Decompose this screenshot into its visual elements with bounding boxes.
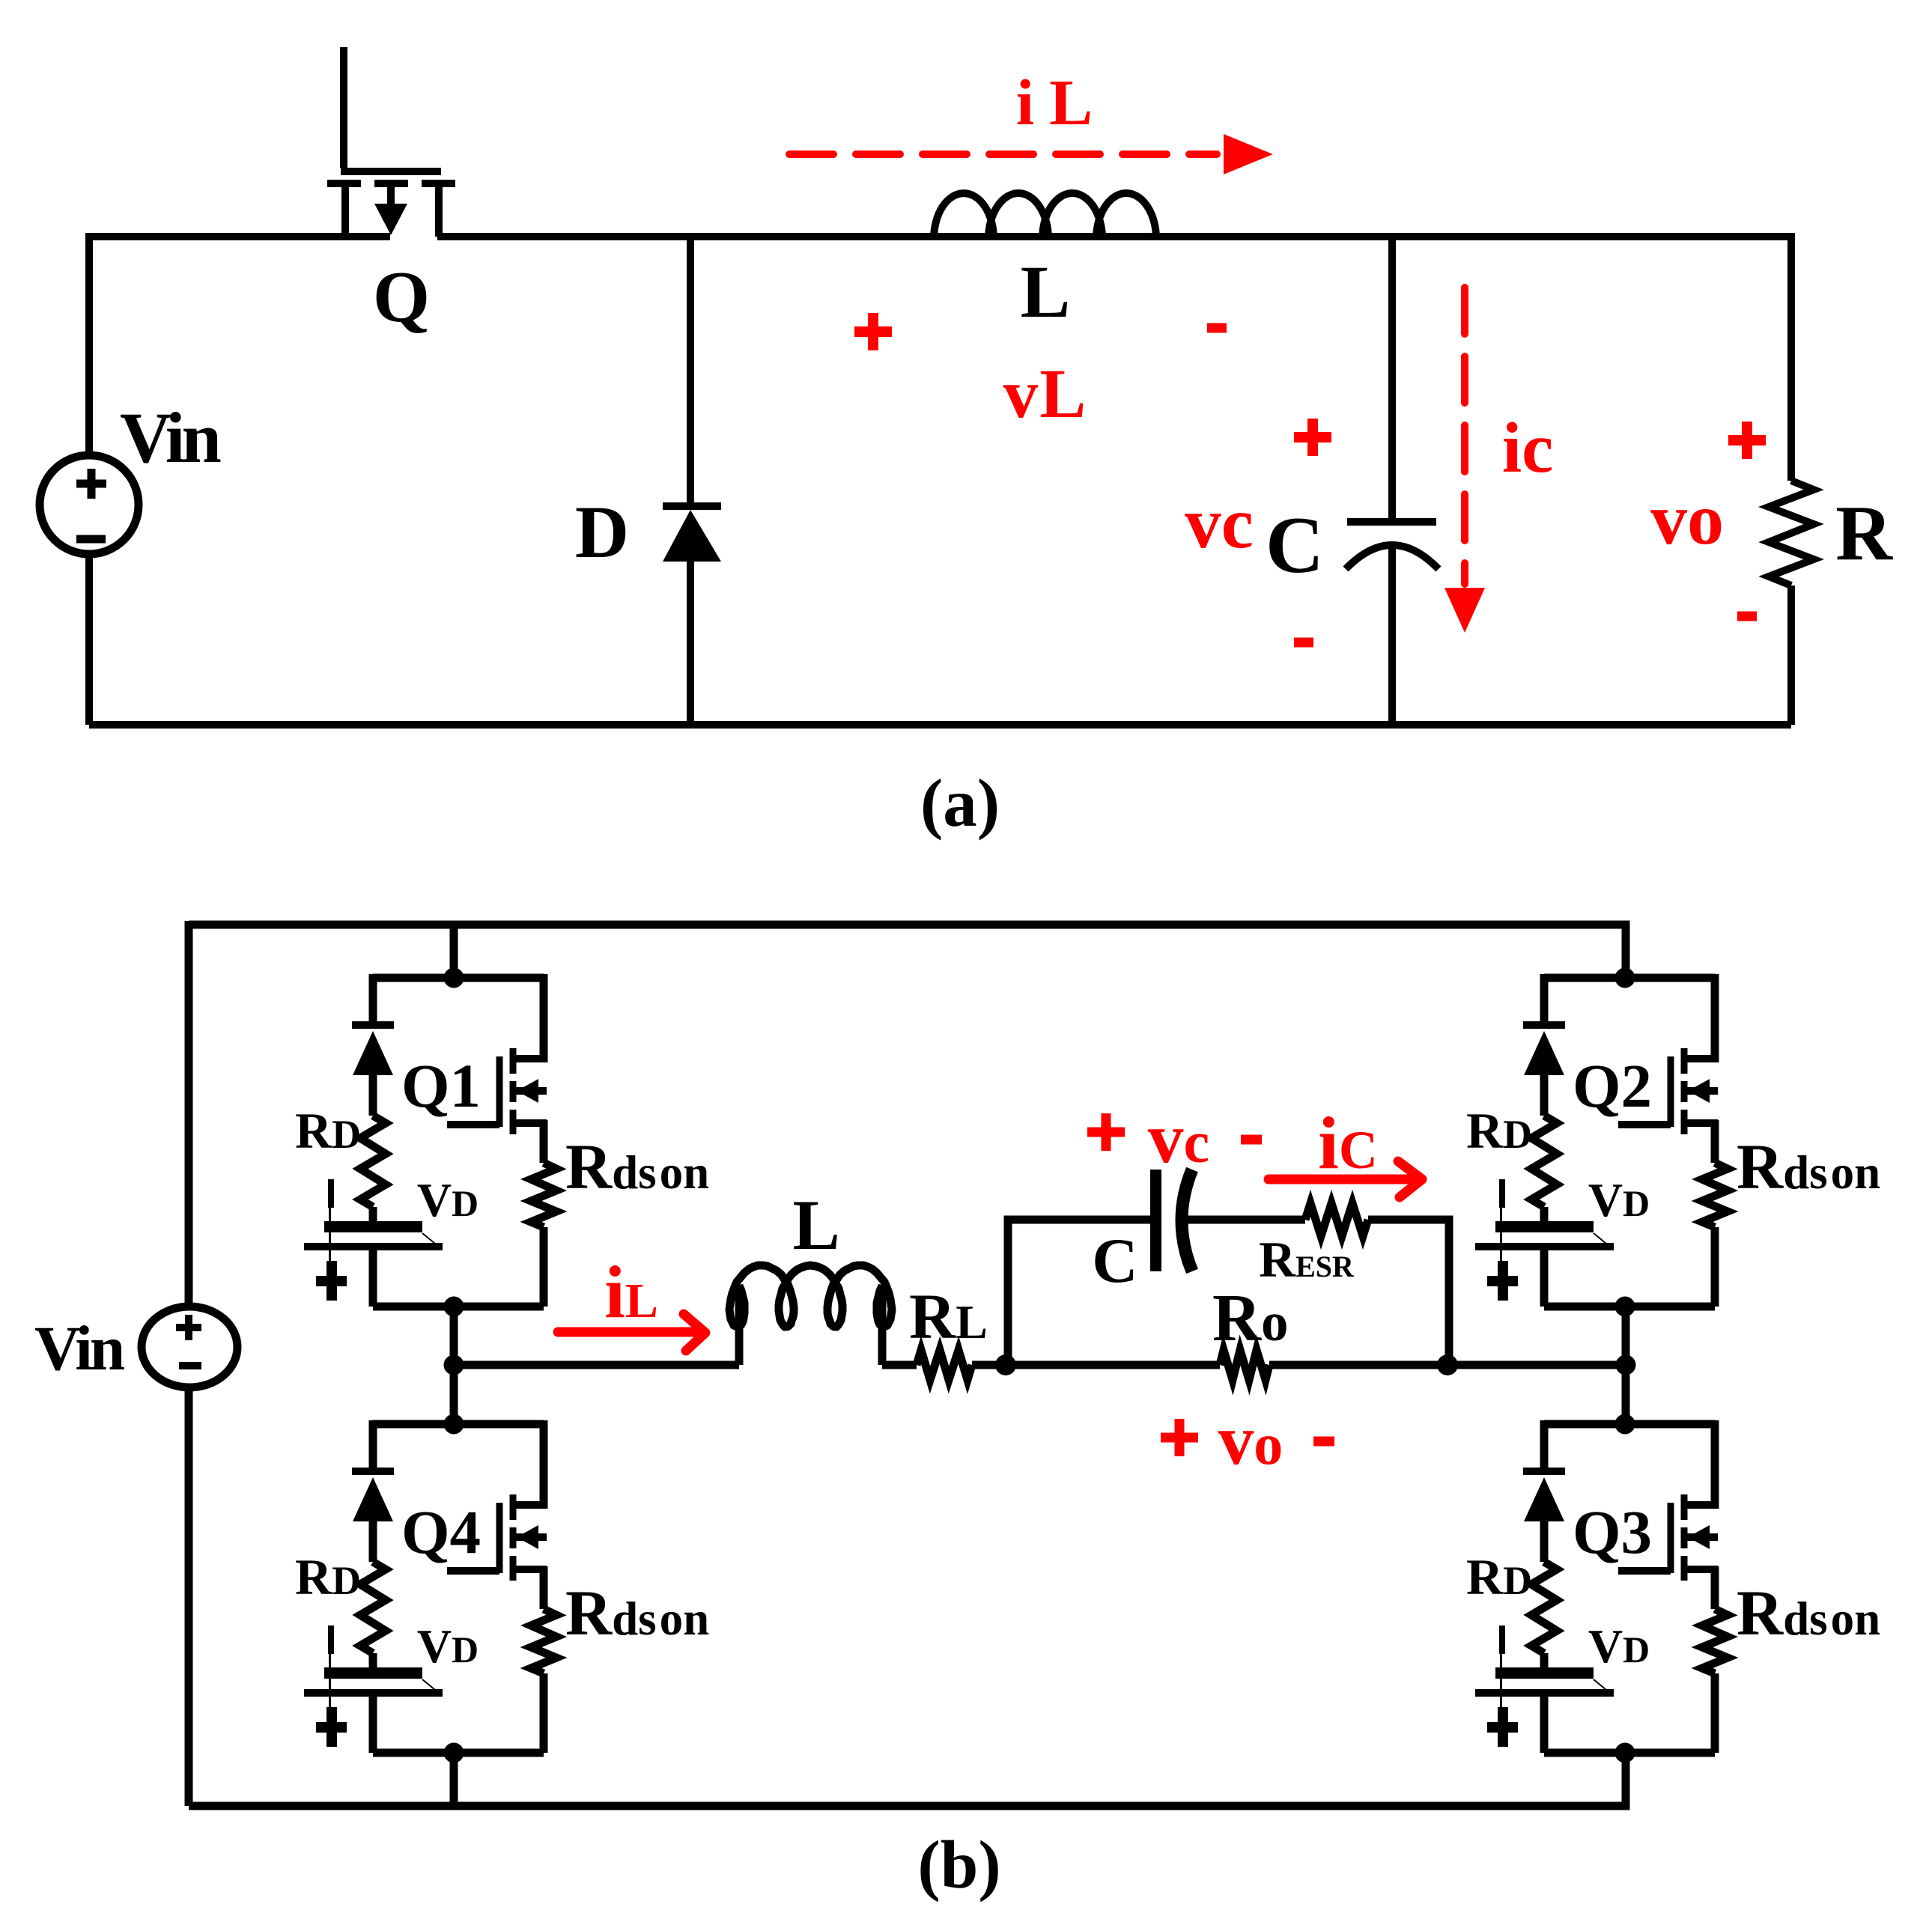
polarity plus of VD (Q4) xyxy=(316,1707,347,1747)
wire: bottom of Q1 cell xyxy=(373,1303,544,1311)
body diode of Q2 xyxy=(1523,1025,1565,1116)
wire: RD to VD (Q2) xyxy=(1540,1207,1549,1221)
node: source node of Q3 xyxy=(1615,1743,1635,1763)
transistor Q2 xyxy=(1618,974,1718,1163)
body diode of Q1 xyxy=(352,1025,394,1116)
wire: bottom rail (b) xyxy=(189,1751,1626,1806)
label RESR xyxy=(1259,1231,1355,1288)
svg-text:vo: vo xyxy=(1218,1400,1284,1479)
wire: Ro branch left xyxy=(1008,1361,1220,1369)
current label iL (b) xyxy=(604,1250,658,1333)
wire: Rdson to bottom (Q1) xyxy=(540,1227,548,1307)
wire: left midpoint to inductor xyxy=(454,1361,739,1369)
resistor RD (Q4) xyxy=(360,1562,386,1653)
label Ro xyxy=(1212,1281,1289,1355)
svg-text:vL: vL xyxy=(1003,356,1088,433)
label Q1 xyxy=(401,1051,481,1120)
svg-text:Ro: Ro xyxy=(1212,1281,1289,1355)
transistor Q3 xyxy=(1618,1420,1718,1609)
node: source node of Q4 xyxy=(444,1743,464,1763)
node: drain node of Q2 xyxy=(1615,968,1635,988)
resistor Rdson (Q1) xyxy=(531,1163,556,1227)
current arrow iL dashed (a) xyxy=(789,134,1273,174)
transistor Q (a) : body arrow xyxy=(374,187,407,235)
wire: left branch upper (Q4) xyxy=(369,1420,377,1471)
wire: Rdson to bottom (Q4) xyxy=(540,1673,548,1753)
current arrow iC (b) xyxy=(1269,1161,1422,1197)
resistor Ro xyxy=(1220,1350,1269,1380)
label D xyxy=(575,490,629,574)
battery VD (Q1) xyxy=(304,1179,443,1294)
polarity minus vL (a) xyxy=(1207,323,1227,333)
polarity plus of VD (Q1) xyxy=(316,1261,347,1301)
label L (a) xyxy=(1021,250,1071,333)
resistor Rdson (Q2) xyxy=(1702,1163,1728,1227)
svg-text:C: C xyxy=(1092,1226,1137,1296)
node: drain node of Q1 xyxy=(444,968,464,988)
label Q4 xyxy=(401,1497,481,1566)
label Rdson (Q1) xyxy=(565,1131,709,1202)
battery VD (Q2) xyxy=(1475,1179,1614,1294)
wire: VD to bottom (Q1) xyxy=(369,1250,377,1307)
node: left midpoint xyxy=(444,1355,464,1375)
label C (b) xyxy=(1092,1226,1137,1296)
label RL xyxy=(909,1280,988,1352)
svg-text:Q1: Q1 xyxy=(401,1051,481,1120)
voltage label vL (a) xyxy=(1003,356,1088,433)
wire: bottom of Q4 cell xyxy=(373,1749,544,1757)
wire: left branch upper (Q2) xyxy=(1540,974,1549,1025)
wire: top of Q2 cell xyxy=(1544,974,1715,982)
wire: right phase-leg link Q2-Q3 xyxy=(1622,1307,1630,1424)
wire: right rail lower (a) xyxy=(1787,586,1795,725)
wire: RESR to right riser xyxy=(1368,1220,1449,1365)
label RD (Q1) xyxy=(295,1102,361,1159)
wire: Q4 bottom stub xyxy=(450,1753,458,1806)
wire: top rail right segment (a) xyxy=(437,233,1791,240)
inductor L (b) xyxy=(729,1265,892,1365)
resistor RL xyxy=(917,1350,972,1380)
polarity minus vo (a) xyxy=(1737,612,1757,621)
resistor Rdson (Q4) xyxy=(531,1609,556,1673)
node: source node of Q2 xyxy=(1615,1297,1635,1317)
voltage source Vin (a) xyxy=(40,455,139,554)
resistor RD (Q3) xyxy=(1531,1562,1557,1653)
caption (b) xyxy=(917,1827,1000,1903)
polarity minus vc (b) xyxy=(1241,1135,1262,1145)
wire: VD to bottom (Q4) xyxy=(369,1697,377,1753)
wire: C branch left riser xyxy=(1008,1220,1150,1365)
wire: top rail (b) xyxy=(189,921,1626,978)
wire: top of Q1 cell xyxy=(373,974,544,982)
label R (a) xyxy=(1835,489,1893,577)
transistor Q4 xyxy=(447,1420,547,1609)
diode D (a) xyxy=(663,506,721,562)
wire: left branch upper (Q1) xyxy=(369,974,377,1025)
voltage label vo (b) xyxy=(1218,1400,1284,1479)
node: output right node xyxy=(1437,1354,1458,1375)
wire: top rail left segment (a) xyxy=(89,233,390,240)
label Rdson (Q4) xyxy=(565,1577,709,1649)
label VD (Q4) xyxy=(417,1620,479,1673)
polarity plus vc (a) xyxy=(1294,419,1331,456)
voltage label vo (a) xyxy=(1650,479,1724,560)
transistor Q (a) : channel bars xyxy=(327,180,455,187)
svg-text:vo: vo xyxy=(1650,479,1724,560)
capacitor C (a) xyxy=(1346,522,1439,569)
svg-text:Q2: Q2 xyxy=(1573,1051,1652,1120)
caption (a) xyxy=(920,765,1000,841)
polarity plus vc (b) xyxy=(1087,1113,1125,1151)
svg-text:iL: iL xyxy=(1016,66,1093,139)
svg-text:ic: ic xyxy=(1502,408,1554,487)
polarity plus vo (b) xyxy=(1161,1419,1198,1456)
svg-text:C: C xyxy=(1266,501,1324,590)
wire: VD to bottom (Q3) xyxy=(1540,1697,1549,1753)
label Rdson (Q2) xyxy=(1737,1131,1880,1202)
label Vin (b) xyxy=(34,1313,124,1384)
polarity plus of VD (Q3) xyxy=(1487,1707,1518,1747)
node: output left node xyxy=(995,1354,1016,1375)
wire: RD to VD (Q3) xyxy=(1540,1653,1549,1667)
label L (b) xyxy=(792,1185,839,1265)
resistor RD (Q1) xyxy=(360,1116,386,1207)
label RD (Q3) xyxy=(1466,1548,1532,1605)
wire: RD to VD (Q4) xyxy=(369,1653,377,1667)
svg-text:(a): (a) xyxy=(920,765,1000,841)
wire: capacitor branch upper (a) xyxy=(1388,234,1396,522)
wire: Ro to output right node xyxy=(1269,1361,1626,1369)
svg-text:D: D xyxy=(575,490,629,574)
svg-text:vc: vc xyxy=(1185,483,1254,563)
polarity plus vL (a) xyxy=(854,313,892,350)
voltage label vc (a) xyxy=(1185,483,1254,563)
svg-text:Q: Q xyxy=(373,257,430,338)
resistor R (a) xyxy=(1769,481,1814,586)
wire: left branch upper (Q3) xyxy=(1540,1420,1549,1471)
wire: C to RESR xyxy=(1187,1216,1305,1224)
polarity minus vc (a) xyxy=(1294,638,1313,648)
resistor Rdson (Q3) xyxy=(1702,1609,1728,1673)
label VD (Q3) xyxy=(1588,1620,1650,1673)
label C (a) xyxy=(1266,501,1324,590)
resistor RESR xyxy=(1305,1203,1368,1236)
wire: left phase-leg link Q1-Q4 xyxy=(450,1307,458,1424)
node: drain node of Q3 xyxy=(1615,1414,1635,1435)
body diode of Q3 xyxy=(1523,1471,1565,1562)
wire: RL to node xyxy=(972,1361,1011,1369)
wire: left rail upper (a) xyxy=(85,233,93,455)
wire: top of Q3 cell xyxy=(1544,1420,1715,1429)
inductor L (a) xyxy=(934,193,1156,239)
polarity minus vo (b) xyxy=(1313,1437,1334,1447)
wire: left rail lower (a) xyxy=(85,554,93,725)
polarity plus of VD (Q2) xyxy=(1487,1261,1518,1301)
wire: left rail lower (b) xyxy=(185,1387,193,1806)
voltage source Vin (b) xyxy=(142,1307,237,1387)
label RD (Q2) xyxy=(1466,1102,1532,1159)
svg-text:(b): (b) xyxy=(917,1827,1000,1903)
svg-text:vc: vc xyxy=(1148,1098,1209,1178)
svg-text:R: R xyxy=(1835,489,1893,577)
label Q3 xyxy=(1573,1497,1652,1566)
label Q xyxy=(373,257,430,338)
node: source node of Q1 xyxy=(444,1297,464,1317)
wire: bottom rail (a) xyxy=(89,721,1791,729)
current label iC (b) xyxy=(1318,1101,1378,1184)
wire: diode branch lower (a) xyxy=(687,562,694,725)
resistor RD (Q2) xyxy=(1531,1116,1557,1207)
svg-text:L: L xyxy=(1021,250,1071,333)
transistor Q (a) : gate lead xyxy=(341,47,441,171)
voltage label vc (b) xyxy=(1148,1098,1209,1178)
wire: Rdson to bottom (Q2) xyxy=(1711,1227,1719,1307)
current label iL (a) xyxy=(1016,66,1093,139)
current label ic (a) xyxy=(1502,408,1554,487)
label RD (Q4) xyxy=(295,1548,361,1605)
battery VD (Q4) xyxy=(304,1626,443,1740)
current arrow iL (b) xyxy=(558,1314,705,1351)
label Q2 xyxy=(1573,1051,1652,1120)
label VD (Q2) xyxy=(1588,1173,1650,1226)
battery VD (Q3) xyxy=(1475,1626,1614,1740)
wire: right rail upper (a) xyxy=(1787,233,1795,481)
wire: Rdson to bottom (Q3) xyxy=(1711,1673,1719,1753)
svg-text:Q4: Q4 xyxy=(401,1497,481,1566)
wire: diode branch upper (a) xyxy=(687,234,694,506)
wire: inductor to RL xyxy=(882,1361,917,1369)
wire: top of Q4 cell xyxy=(373,1420,544,1429)
svg-text:L: L xyxy=(792,1185,839,1265)
wire: capacitor branch lower (a) xyxy=(1388,547,1396,725)
node: right midpoint xyxy=(1616,1355,1636,1375)
svg-text:Q3: Q3 xyxy=(1573,1497,1652,1566)
wire: bottom of Q2 cell xyxy=(1544,1303,1715,1311)
transistor Q (a) : drain/source stubs xyxy=(345,187,439,237)
wire: VD to bottom (Q2) xyxy=(1540,1250,1549,1307)
node: drain node of Q4 xyxy=(444,1414,464,1435)
label Rdson (Q3) xyxy=(1737,1577,1880,1649)
capacitor C (b) xyxy=(1150,1170,1192,1271)
wire: RD to VD (Q1) xyxy=(369,1207,377,1221)
current arrow ic dashed (a) xyxy=(1445,288,1485,633)
label VD (Q1) xyxy=(417,1173,479,1226)
wire: Q1 top stub xyxy=(450,925,458,978)
label Vin (a) xyxy=(120,398,220,478)
wire: bottom of Q3 cell xyxy=(1544,1749,1715,1757)
body diode of Q4 xyxy=(352,1471,394,1562)
svg-text:Vin: Vin xyxy=(120,398,220,478)
svg-text:Vin: Vin xyxy=(34,1313,124,1384)
polarity plus vo (a) xyxy=(1728,422,1766,459)
wire: left rail upper (b) xyxy=(185,925,193,1307)
transistor Q1 xyxy=(447,974,547,1163)
